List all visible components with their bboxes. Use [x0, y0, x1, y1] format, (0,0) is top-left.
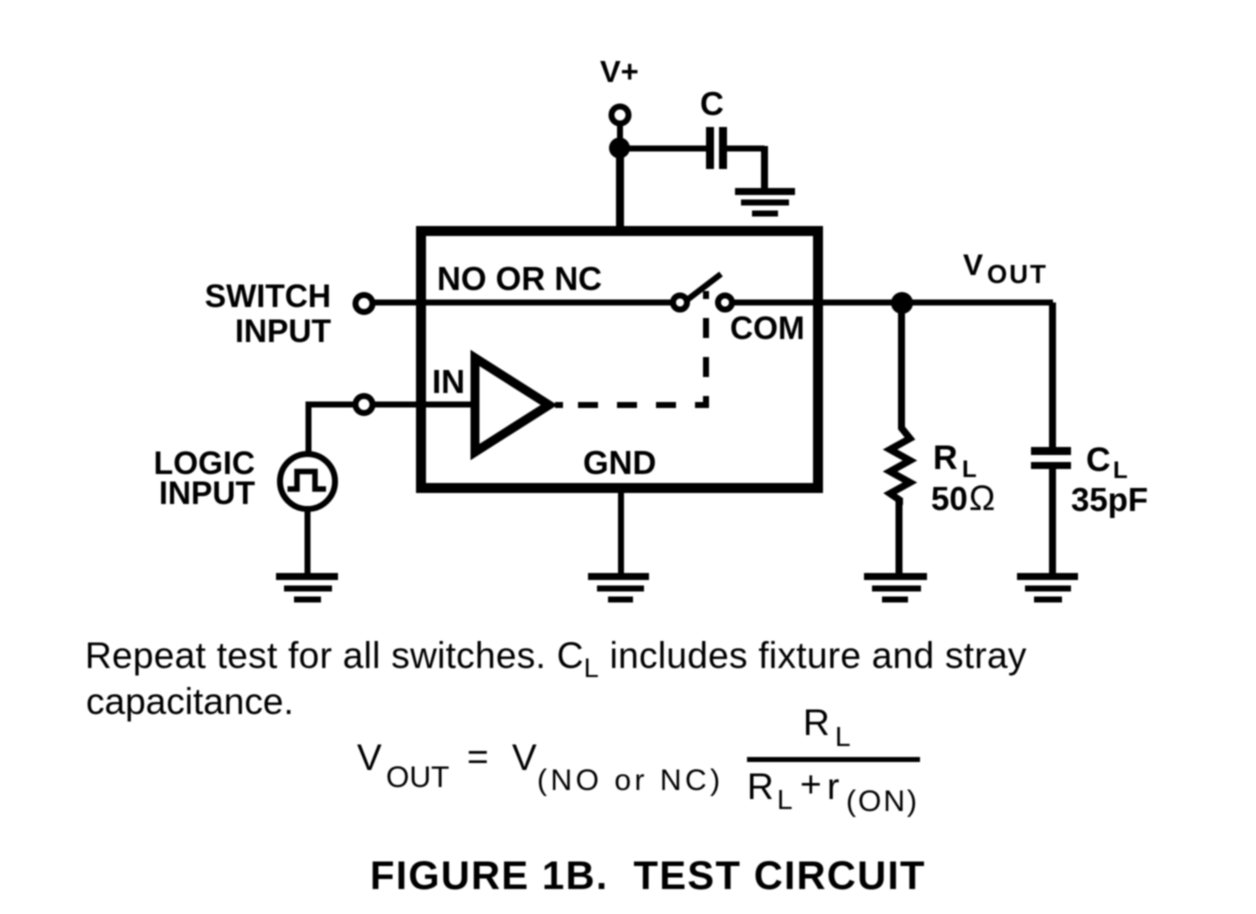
capacitor CL	[1031, 451, 1071, 466]
capacitor C	[710, 127, 723, 169]
junction VOUT node	[891, 292, 913, 314]
svg-text:(NO or NC): (NO or NC)	[537, 764, 724, 797]
wire corner to pulse source	[306, 402, 312, 453]
wire capacitor C to ground	[727, 146, 765, 191]
ground (capacitor C)	[735, 192, 795, 214]
svg-text:V+: V+	[600, 54, 639, 89]
svg-text:+: +	[800, 764, 822, 805]
ground (RL)	[864, 577, 927, 600]
svg-text:COM: COM	[730, 310, 805, 346]
note text line 1	[85, 635, 1027, 722]
svg-text:R: R	[747, 766, 774, 807]
wire CL to ground	[1049, 465, 1056, 575]
wire COM to VOUT node	[733, 300, 1053, 306]
pulse source V1	[280, 454, 335, 509]
node V+ terminal	[612, 107, 629, 124]
svg-text:V: V	[357, 737, 382, 778]
switch S1 contact NO/NC	[673, 296, 687, 310]
wire LOGIC INPUT to driver	[374, 402, 471, 408]
node VOUT label	[963, 249, 1048, 289]
svg-text:50: 50	[931, 480, 968, 517]
svg-text:L: L	[835, 721, 851, 752]
node SWITCH INPUT terminal	[356, 295, 373, 312]
junction V+ node	[609, 138, 630, 159]
svg-text:OUT: OUT	[987, 259, 1048, 289]
svg-text:C: C	[700, 85, 724, 122]
svg-text:FIGURE 1B. TEST CIRCUIT: FIGURE 1B. TEST CIRCUIT	[370, 854, 926, 898]
DUT box U1	[421, 231, 818, 488]
svg-text:INPUT: INPUT	[235, 313, 331, 349]
svg-text:Repeat test for all switches.: Repeat test for all switches. CL include…	[85, 635, 1027, 683]
wire GND pin to ground	[618, 493, 624, 575]
wire driver output stub	[555, 402, 563, 408]
driver buffer A1	[475, 358, 549, 452]
ground (DUT GND)	[588, 577, 649, 600]
svg-text:SWITCH: SWITCH	[205, 278, 331, 314]
svg-text:35pF: 35pF	[1071, 481, 1148, 518]
resistor RL	[890, 424, 910, 505]
svg-text:(ON): (ON)	[846, 785, 919, 818]
svg-text:NO OR NC: NO OR NC	[437, 260, 602, 297]
svg-text:OUT: OUT	[386, 761, 449, 794]
formula VOUT equation	[357, 702, 919, 818]
switch S1 lever	[687, 274, 721, 300]
svg-text:V: V	[512, 737, 537, 778]
capacitor CL label	[1071, 441, 1148, 518]
svg-text:R: R	[803, 702, 830, 743]
svg-text:L: L	[1113, 457, 1128, 484]
wire VOUT node to CL	[1049, 303, 1056, 448]
ground (pulse source)	[276, 577, 338, 600]
svg-text:GND: GND	[583, 444, 656, 481]
wire V+ terminal to junction	[617, 124, 623, 140]
wire V+ to box top	[616, 148, 624, 232]
svg-text:Ω: Ω	[969, 479, 995, 518]
switch S1 contact COM	[718, 296, 732, 310]
wire SWITCH INPUT to switch contact	[374, 300, 671, 306]
svg-text:C: C	[1086, 441, 1111, 479]
wire pulse source to ground	[305, 511, 311, 575]
wire RL to ground	[896, 500, 903, 575]
svg-text:L: L	[777, 784, 793, 815]
svg-text:V: V	[963, 249, 983, 282]
pulse source V1 waveform	[288, 472, 327, 490]
wire V+ node to capacitor C	[619, 146, 706, 152]
svg-text:R: R	[933, 439, 958, 477]
node LOGIC INPUT terminal	[356, 396, 373, 413]
svg-text:IN: IN	[432, 363, 465, 400]
wire VOUT node to RL	[898, 303, 905, 429]
wire LOGIC INPUT left segment	[306, 402, 355, 408]
svg-text:INPUT: INPUT	[159, 475, 255, 511]
svg-text:capacitance.: capacitance.	[86, 681, 294, 722]
formula fraction bar	[747, 757, 920, 762]
resistor RL label	[931, 439, 995, 518]
svg-text:=: =	[467, 736, 489, 777]
svg-text:r: r	[827, 766, 839, 807]
wire dashed actuator line	[578, 291, 706, 405]
ground (CL)	[1017, 577, 1078, 600]
